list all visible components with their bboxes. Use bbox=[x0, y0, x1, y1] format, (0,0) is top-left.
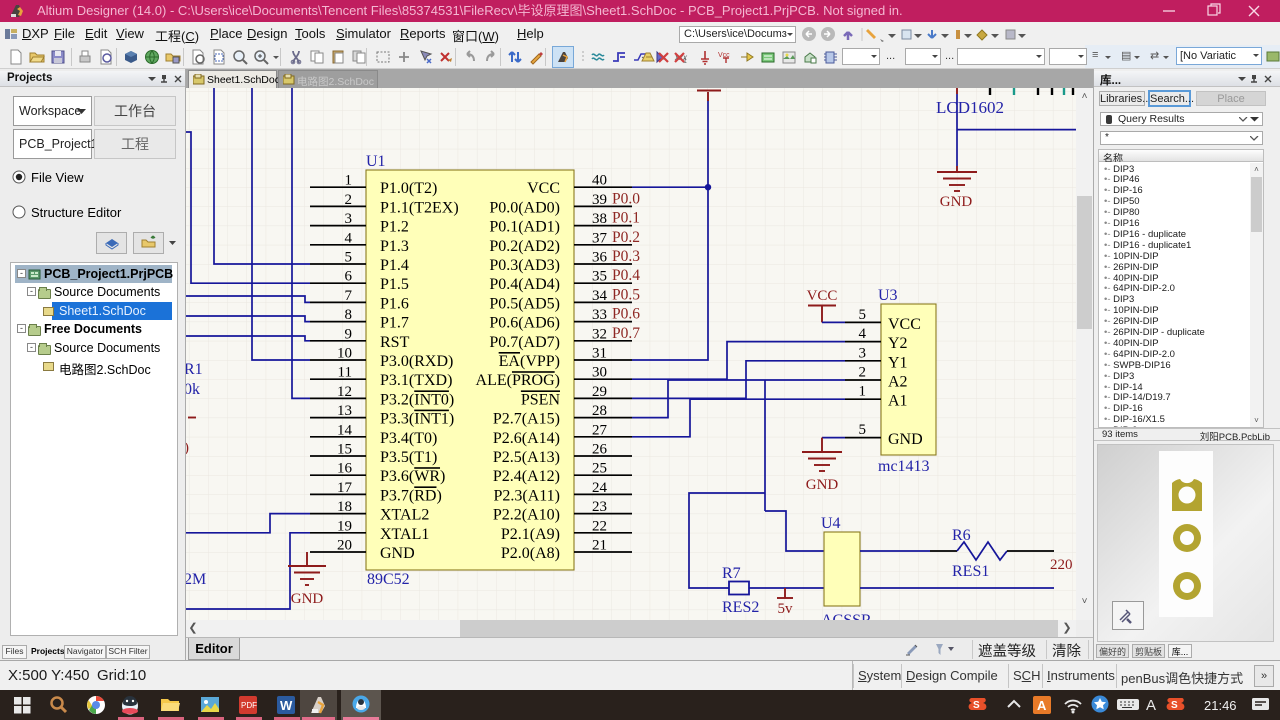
svg-text:VCC: VCC bbox=[527, 180, 560, 197]
svg-text:16: 16 bbox=[337, 461, 353, 477]
svg-text:30: 30 bbox=[592, 365, 607, 381]
svg-text:P2.5(A13): P2.5(A13) bbox=[493, 449, 560, 466]
svg-text:3: 3 bbox=[345, 211, 353, 227]
svg-text:P0.3: P0.3 bbox=[612, 248, 640, 265]
svg-text:P2.7(A15): P2.7(A15) bbox=[493, 411, 560, 428]
svg-text:P2.1(A9): P2.1(A9) bbox=[501, 526, 560, 543]
svg-text:XTAL1: XTAL1 bbox=[380, 526, 429, 543]
svg-text:P1.5: P1.5 bbox=[380, 276, 409, 293]
svg-text:A2: A2 bbox=[888, 374, 908, 391]
svg-text:9: 9 bbox=[345, 326, 353, 342]
svg-text:P0.7: P0.7 bbox=[612, 325, 640, 342]
svg-text:10: 10 bbox=[337, 346, 352, 362]
svg-text:): ) bbox=[186, 440, 189, 456]
svg-text:8: 8 bbox=[345, 307, 353, 323]
svg-text:34: 34 bbox=[592, 288, 608, 304]
svg-text:23: 23 bbox=[592, 499, 607, 515]
svg-text:P3.0(RXD): P3.0(RXD) bbox=[380, 353, 453, 370]
svg-text:5: 5 bbox=[859, 422, 867, 438]
svg-text:24: 24 bbox=[592, 480, 608, 496]
svg-text:P3.6(WR): P3.6(WR) bbox=[380, 468, 445, 485]
svg-text:R7: R7 bbox=[722, 565, 741, 582]
svg-text:P0.0: P0.0 bbox=[612, 190, 640, 207]
svg-text:17: 17 bbox=[337, 480, 353, 496]
svg-text:P1.2: P1.2 bbox=[380, 219, 409, 236]
svg-text:22: 22 bbox=[592, 518, 607, 534]
svg-text:GND: GND bbox=[380, 545, 415, 562]
svg-text:35: 35 bbox=[592, 269, 607, 285]
svg-text:VCC: VCC bbox=[807, 288, 838, 304]
svg-text:P1.7: P1.7 bbox=[380, 315, 409, 332]
svg-text:39: 39 bbox=[592, 192, 607, 208]
svg-text:P0.2(AD2): P0.2(AD2) bbox=[489, 238, 560, 255]
svg-text:P0.4(AD4): P0.4(AD4) bbox=[489, 276, 560, 293]
svg-text:3: 3 bbox=[859, 345, 867, 361]
svg-text:5v: 5v bbox=[778, 601, 794, 617]
svg-text:P0.7(AD7): P0.7(AD7) bbox=[489, 334, 560, 351]
svg-text:20: 20 bbox=[337, 538, 352, 554]
svg-text:220: 220 bbox=[1050, 557, 1073, 573]
svg-text:P1.0(T2): P1.0(T2) bbox=[380, 180, 437, 197]
svg-text:40: 40 bbox=[592, 173, 607, 189]
svg-text:0k: 0k bbox=[186, 381, 200, 398]
svg-text:RES1: RES1 bbox=[952, 563, 989, 580]
svg-text:P1.1(T2EX): P1.1(T2EX) bbox=[380, 199, 459, 216]
svg-text:EA(VPP): EA(VPP) bbox=[499, 353, 560, 370]
svg-text:7: 7 bbox=[345, 288, 353, 304]
svg-text:27: 27 bbox=[592, 422, 608, 438]
svg-text:S: S bbox=[1171, 700, 1178, 711]
svg-text:Y2: Y2 bbox=[888, 335, 908, 352]
svg-text:28: 28 bbox=[592, 403, 607, 419]
svg-text:18: 18 bbox=[337, 499, 352, 515]
svg-text:ACSSR: ACSSR bbox=[821, 612, 872, 620]
svg-text:25: 25 bbox=[592, 461, 607, 477]
svg-text:2: 2 bbox=[859, 365, 867, 381]
svg-text:6: 6 bbox=[345, 269, 353, 285]
svg-text:PDF: PDF bbox=[241, 701, 257, 710]
svg-text:R1: R1 bbox=[186, 361, 203, 378]
svg-text:P2.6(A14): P2.6(A14) bbox=[493, 430, 560, 447]
svg-text:A: A bbox=[1146, 697, 1156, 714]
svg-text:P3.1(TXD): P3.1(TXD) bbox=[380, 372, 452, 389]
svg-text:P0.4: P0.4 bbox=[612, 267, 640, 284]
svg-text:12: 12 bbox=[337, 384, 352, 400]
svg-text:XTAL2: XTAL2 bbox=[380, 507, 429, 524]
svg-text:VCC: VCC bbox=[888, 316, 921, 333]
svg-text:P2.4(A12): P2.4(A12) bbox=[493, 468, 560, 485]
svg-text:P2.2(A10): P2.2(A10) bbox=[493, 507, 560, 524]
svg-text:A1: A1 bbox=[888, 393, 908, 410]
svg-text:15: 15 bbox=[337, 442, 352, 458]
svg-text:26: 26 bbox=[592, 442, 608, 458]
svg-text:ALE(PROG): ALE(PROG) bbox=[476, 372, 560, 389]
svg-text:GND: GND bbox=[940, 194, 973, 210]
svg-text:31: 31 bbox=[592, 346, 607, 362]
svg-text:5: 5 bbox=[859, 307, 867, 323]
svg-text:U4: U4 bbox=[821, 515, 841, 532]
svg-text:14: 14 bbox=[337, 422, 353, 438]
svg-text:4: 4 bbox=[859, 326, 867, 342]
svg-text:89C52: 89C52 bbox=[367, 571, 410, 588]
svg-text:13: 13 bbox=[337, 403, 352, 419]
svg-text:R6: R6 bbox=[952, 527, 971, 544]
svg-text:U3: U3 bbox=[878, 287, 898, 304]
svg-text:P3.4(T0): P3.4(T0) bbox=[380, 430, 437, 447]
svg-text:P0.2: P0.2 bbox=[612, 229, 640, 246]
svg-text:21: 21 bbox=[592, 538, 607, 554]
svg-text:1: 1 bbox=[345, 173, 353, 189]
svg-text:33: 33 bbox=[592, 307, 607, 323]
svg-text:2M: 2M bbox=[186, 571, 206, 588]
svg-text:P0.6(AD6): P0.6(AD6) bbox=[489, 315, 560, 332]
svg-text:P0.0(AD0): P0.0(AD0) bbox=[489, 199, 560, 216]
svg-text:LCD1602: LCD1602 bbox=[936, 98, 1004, 117]
svg-text:P1.6: P1.6 bbox=[380, 295, 409, 312]
svg-text:4: 4 bbox=[345, 230, 353, 246]
svg-text:29: 29 bbox=[592, 384, 607, 400]
svg-text:U1: U1 bbox=[366, 153, 386, 170]
svg-text:P3.5(T1): P3.5(T1) bbox=[380, 449, 437, 466]
svg-text:P0.1(AD1): P0.1(AD1) bbox=[489, 219, 560, 236]
svg-text:RST: RST bbox=[380, 334, 410, 351]
svg-text:RES2: RES2 bbox=[722, 599, 759, 616]
svg-text:P0.5(AD5): P0.5(AD5) bbox=[489, 295, 560, 312]
svg-text:32: 32 bbox=[592, 326, 607, 342]
svg-text:P3.7(RD): P3.7(RD) bbox=[380, 487, 442, 504]
svg-text:P1.3: P1.3 bbox=[380, 238, 409, 255]
svg-text:P1.4: P1.4 bbox=[380, 257, 409, 274]
svg-text:A: A bbox=[1037, 698, 1047, 713]
svg-text:36: 36 bbox=[592, 250, 608, 266]
svg-text:P2.3(A11): P2.3(A11) bbox=[493, 487, 560, 504]
svg-text:mc1413: mc1413 bbox=[878, 458, 930, 475]
svg-text:37: 37 bbox=[592, 230, 608, 246]
svg-text:P2.0(A8): P2.0(A8) bbox=[501, 545, 560, 562]
svg-text:Y1: Y1 bbox=[888, 354, 908, 371]
svg-text:P0.6: P0.6 bbox=[612, 306, 640, 323]
svg-text:5: 5 bbox=[345, 250, 353, 266]
svg-text:S: S bbox=[973, 700, 980, 711]
svg-text:PSEN: PSEN bbox=[521, 391, 561, 408]
svg-text:GND: GND bbox=[888, 431, 923, 448]
svg-text:P3.3(INT1): P3.3(INT1) bbox=[380, 411, 454, 428]
svg-text:1: 1 bbox=[859, 384, 867, 400]
svg-text:2: 2 bbox=[345, 192, 353, 208]
svg-text:GND: GND bbox=[806, 477, 839, 493]
svg-text:P0.5: P0.5 bbox=[612, 286, 640, 303]
svg-text:GND: GND bbox=[291, 591, 324, 607]
svg-text:19: 19 bbox=[337, 518, 352, 534]
svg-text:P3.2(INT0): P3.2(INT0) bbox=[380, 391, 454, 408]
svg-text:38: 38 bbox=[592, 211, 607, 227]
svg-text:P0.1: P0.1 bbox=[612, 210, 640, 227]
svg-text:W: W bbox=[280, 698, 293, 713]
svg-text:P0.3(AD3): P0.3(AD3) bbox=[489, 257, 560, 274]
svg-text:11: 11 bbox=[338, 365, 352, 381]
